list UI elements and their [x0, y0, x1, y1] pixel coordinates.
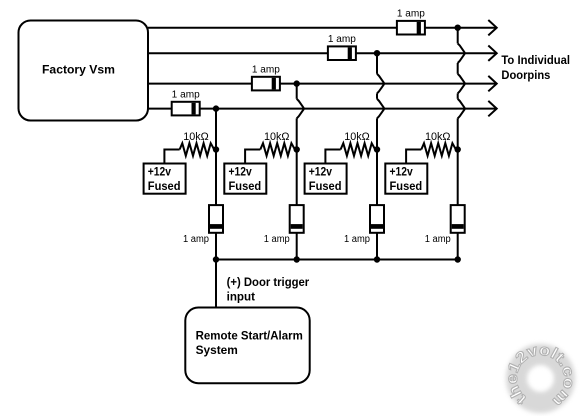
svg-text:1 amp: 1 amp	[183, 234, 209, 245]
svg-text:Remote Start/Alarm: Remote Start/Alarm	[196, 329, 303, 343]
junction node: branch 2 on trigger bus	[294, 256, 300, 262]
resistor R4 10k ohm	[421, 143, 456, 156]
wire: resistor lead to branch 2	[295, 149, 297, 151]
svg-text:1 amp: 1 amp	[264, 234, 290, 245]
svg-text:Fused: Fused	[390, 179, 423, 193]
+12v fused supply box branch 4	[385, 164, 427, 194]
arrow to doorpin 3	[488, 76, 496, 91]
resistor R1 10k ohm	[180, 143, 215, 156]
Remote Start/Alarm System module box	[185, 308, 309, 384]
svg-text:10kΩ: 10kΩ	[264, 131, 290, 143]
fuse F4 1 amp (horizontal)	[172, 102, 200, 116]
+12v fused supply box branch 3	[305, 164, 347, 194]
wire: +12v source riser branch 2	[245, 150, 260, 164]
watermark the12volt.com	[504, 342, 578, 410]
wire: +12v source riser branch 1	[164, 150, 179, 164]
+12v fused supply box branch 1	[144, 164, 186, 194]
svg-text:1 amp: 1 amp	[344, 234, 370, 245]
arrow to doorpin 2	[488, 46, 496, 61]
svg-text:Fused: Fused	[148, 179, 181, 193]
junction node: branch 1 on trigger bus	[213, 256, 219, 262]
junction node: R2 to branch 2	[294, 146, 300, 152]
svg-text:(+) Door trigger: (+) Door trigger	[227, 275, 310, 289]
fuse F2 1 amp (horizontal)	[328, 46, 356, 60]
junction node: branch 3 on trigger bus	[374, 256, 380, 262]
svg-text:+12v: +12v	[309, 165, 332, 179]
junction node: R3 to branch 3	[374, 146, 380, 152]
branch 1 vertical wire from tap to bus	[215, 109, 217, 260]
wire: resistor lead to branch 1	[214, 149, 216, 151]
svg-text:1 amp: 1 amp	[425, 234, 451, 245]
node label: (+) door trigger input	[227, 275, 310, 304]
junction node: branch 1 tap on wire	[213, 105, 219, 111]
door trigger bus wire	[216, 259, 458, 261]
svg-text:Fused: Fused	[229, 179, 262, 193]
wire: bus to remote start/alarm input	[215, 260, 217, 308]
svg-text:1 amp: 1 amp	[252, 65, 280, 76]
branch 2 vertical wire from tap to bus	[297, 84, 304, 260]
junction node: branch 2 tap on wire	[294, 80, 300, 86]
wire: resistor lead to branch 3	[375, 149, 377, 151]
svg-text:+12v: +12v	[148, 165, 171, 179]
wire: +12v source riser branch 4	[406, 150, 421, 164]
fuse F5 1 amp (vertical) on branch 1	[209, 205, 223, 233]
junction node: branch 4 tap on wire	[455, 25, 461, 31]
junction node: branch 3 tap on wire	[374, 50, 380, 56]
wire 3	[148, 83, 497, 85]
wire: resistor lead to branch 4	[456, 149, 458, 151]
resistor R3 10k ohm	[341, 143, 376, 156]
svg-text:Fused: Fused	[309, 179, 342, 193]
junction node: R4 to branch 4	[455, 146, 461, 152]
svg-text:1 amp: 1 amp	[397, 9, 425, 20]
branch 4 vertical wire from tap to bus	[458, 28, 465, 260]
svg-text:+12v: +12v	[229, 165, 252, 179]
svg-text:10kΩ: 10kΩ	[425, 131, 451, 143]
fuse F1 1 amp (horizontal)	[397, 21, 425, 35]
svg-text:To Individual: To Individual	[501, 53, 570, 67]
fuse F8 1 amp (vertical) on branch 4	[451, 205, 465, 233]
svg-text:1 amp: 1 amp	[172, 90, 200, 101]
branch 3 vertical wire from tap to bus	[377, 53, 384, 259]
svg-text:10kΩ: 10kΩ	[183, 131, 209, 143]
Factory Vsm module box	[19, 21, 149, 121]
resistor R2 10k ohm	[260, 143, 295, 156]
arrow to doorpin 1	[488, 20, 496, 35]
fuse F3 1 amp (horizontal)	[252, 77, 280, 91]
fuse F6 1 amp (vertical) on branch 2	[290, 205, 304, 233]
svg-text:Doorpins: Doorpins	[501, 68, 550, 82]
+12v fused supply box branch 2	[224, 164, 266, 194]
fuse F7 1 amp (vertical) on branch 3	[370, 205, 384, 233]
arrow to doorpin 4	[488, 101, 496, 116]
svg-text:input: input	[227, 289, 255, 303]
wire 4 (bottom doorpin wire)	[148, 108, 497, 110]
svg-text:1 amp: 1 amp	[328, 34, 356, 45]
svg-text:+12v: +12v	[390, 165, 413, 179]
wire 1 (top doorpin wire)	[148, 27, 497, 29]
junction node: R1 to branch 1	[213, 146, 219, 152]
junction node: branch 4 on trigger bus	[455, 256, 461, 262]
svg-text:Factory Vsm: Factory Vsm	[42, 63, 115, 77]
svg-text:10kΩ: 10kΩ	[344, 131, 370, 143]
svg-text:System: System	[196, 343, 238, 357]
wire: +12v source riser branch 3	[325, 150, 340, 164]
net label: To Individual Doorpins	[501, 53, 570, 82]
wire 2	[148, 52, 497, 54]
